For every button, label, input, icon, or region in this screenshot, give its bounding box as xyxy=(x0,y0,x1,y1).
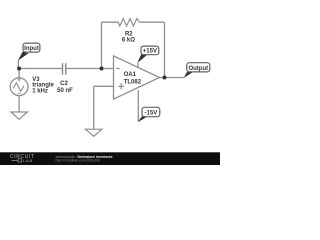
ground (below non-inverting input) xyxy=(85,129,102,136)
op-amp OA1 non-inverting input plus mark xyxy=(118,83,124,89)
svg-text:-15V: -15V xyxy=(145,110,158,116)
power flag -15V xyxy=(138,107,160,122)
voltage source V3 xyxy=(10,77,54,96)
Input flag box xyxy=(23,43,40,52)
svg-text:50 nF: 50 nF xyxy=(57,88,73,94)
V3 circle body xyxy=(10,78,28,96)
V3 minus mark xyxy=(17,92,20,94)
wire op-amp output to Output flag xyxy=(160,77,185,79)
Input flag pointer tail xyxy=(18,52,29,61)
wire top horizontal to R2 left lead xyxy=(102,21,119,23)
svg-text:6 kΩ: 6 kΩ xyxy=(122,38,135,44)
wire feedback right vertical down to node C xyxy=(164,22,166,77)
ground (below V3) xyxy=(11,112,28,119)
wire non-inverting input horizontal xyxy=(94,85,114,87)
op-amp U1 (OA1 TL082) xyxy=(114,56,160,99)
wire op-amp V+ power pin xyxy=(137,63,139,68)
resistor R2 xyxy=(118,19,139,26)
watermark bar xyxy=(0,152,220,165)
power flag +15V xyxy=(137,46,158,63)
wire V3 bottom lead to ground xyxy=(18,96,20,113)
wire op-amp V- power pin xyxy=(137,90,139,121)
Output flag box xyxy=(187,63,210,72)
V3 triangle waveform symbol xyxy=(13,83,24,92)
-15V flag pointer tail xyxy=(138,116,148,122)
node B junction dot (inverting input / feedback) xyxy=(100,67,104,71)
svg-text:+15V: +15V xyxy=(143,49,157,55)
+15V flag box xyxy=(141,46,159,55)
net flag Output xyxy=(184,63,210,78)
net flag Input xyxy=(18,43,40,61)
svg-text:Input: Input xyxy=(24,46,39,52)
capacitor C2 xyxy=(63,63,66,75)
svg-text:C2: C2 xyxy=(60,81,68,87)
wire Input flag lead xyxy=(17,60,19,69)
svg-text:OA1: OA1 xyxy=(124,72,137,78)
wire node A to C2 left plate xyxy=(19,68,62,70)
wire feedback left vertical (node B up) xyxy=(101,22,103,68)
wire non-inverting input down to ground xyxy=(93,86,95,129)
svg-text:1 kHz: 1 kHz xyxy=(32,88,48,94)
op-amp OA1 triangle body xyxy=(114,56,160,99)
-15V flag box xyxy=(142,107,160,116)
wire V3 top lead xyxy=(18,69,20,79)
CircuitLab logo xyxy=(10,154,34,163)
V3 plus mark xyxy=(17,78,20,81)
svg-text:LAB: LAB xyxy=(23,158,33,163)
wire R2 right lead to top right corner xyxy=(140,21,165,23)
wire C2 right plate to op-amp inverting input (node B) xyxy=(66,68,114,70)
Output flag pointer tail xyxy=(184,72,194,78)
svg-text:TL082: TL082 xyxy=(124,79,142,85)
svg-text:http://circuitlab.com/c62xd99: http://circuitlab.com/c62xd99 xyxy=(56,159,100,163)
node C junction dot (output / feedback) xyxy=(163,76,167,80)
node A junction dot (input / V3) xyxy=(17,67,21,71)
svg-text:Output: Output xyxy=(188,66,208,72)
+15V flag pointer tail xyxy=(137,54,147,63)
op-amp OA1 inverting input minus mark xyxy=(116,67,120,69)
